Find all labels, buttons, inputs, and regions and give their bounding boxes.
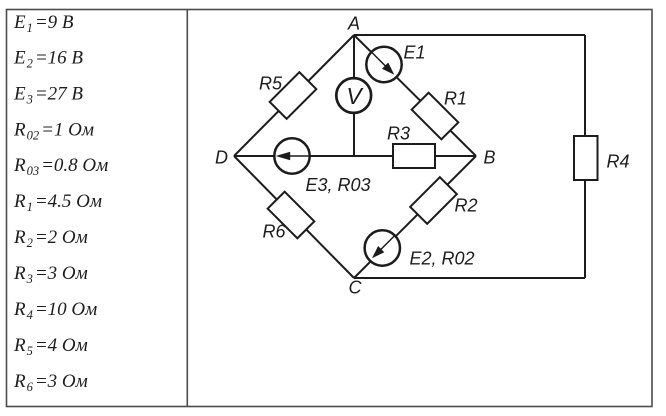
source E3 [274, 138, 309, 173]
svg-text:B: B [484, 148, 496, 168]
wire right side through R4 [584, 35, 586, 278]
svg-text:E1=9 В: E1=9 В [13, 12, 74, 35]
svg-text:R3: R3 [387, 124, 410, 144]
svg-text:R6: R6 [263, 222, 287, 242]
svg-text:D: D [215, 148, 228, 168]
svg-text:E2, R02: E2, R02 [410, 249, 475, 269]
wire A-B [354, 35, 476, 156]
wire D-A [234, 35, 354, 156]
source E1 [366, 47, 401, 82]
voltmeter V [336, 78, 371, 113]
svg-text:R2=2 Ом: R2=2 Ом [13, 227, 88, 250]
wire A to voltmeter junction [353, 35, 355, 156]
svg-text:E1: E1 [404, 43, 426, 63]
svg-text:V: V [346, 83, 364, 109]
wire D-C [234, 156, 354, 278]
svg-text:R3=3 Ом: R3=3 Ом [13, 263, 88, 286]
svg-text:R6=3 Ом: R6=3 Ом [13, 371, 88, 394]
svg-text:R5: R5 [259, 74, 283, 94]
resistor R4 [574, 136, 598, 180]
resistor R2 [410, 177, 457, 224]
wire B-C [354, 156, 476, 278]
wire C to bottom right corner [354, 277, 585, 279]
svg-text:C: C [349, 278, 363, 298]
svg-text:R02=1 Ом: R02=1 Ом [13, 119, 94, 142]
wire A to top right corner [354, 34, 585, 36]
svg-text:E2=16 В: E2=16 В [13, 48, 83, 71]
svg-text:E3, R03: E3, R03 [306, 175, 371, 195]
wire D-B [234, 155, 476, 157]
svg-text:R2: R2 [455, 196, 478, 216]
resistor R3 [393, 144, 435, 168]
svg-text:R4: R4 [607, 152, 630, 172]
svg-text:E3=27 В: E3=27 В [13, 83, 83, 106]
svg-text:R5=4 Ом: R5=4 Ом [13, 335, 88, 358]
resistor R6 [268, 192, 315, 239]
svg-text:A: A [347, 14, 360, 34]
resistor R5 [270, 72, 317, 119]
source E2 [365, 230, 400, 265]
resistor R1 [412, 93, 459, 140]
svg-text:R1: R1 [444, 89, 467, 109]
